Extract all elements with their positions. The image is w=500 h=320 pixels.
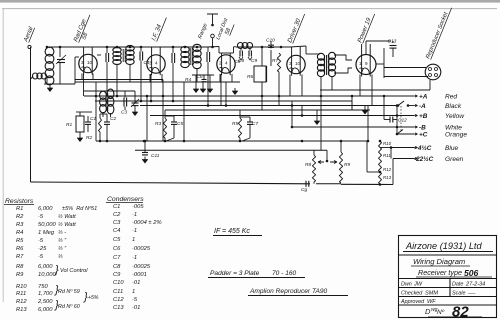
svg-text:C7: C7 [252,121,258,127]
svg-text:C3: C3 [121,110,127,116]
svg-text:·005: ·005 [132,204,144,210]
svg-text:3: 3 [289,61,292,66]
svg-text:750: 750 [38,284,48,290]
svg-text:R1: R1 [16,206,23,212]
svg-text:Approved: Approved [400,299,425,305]
svg-text:4: 4 [225,61,228,66]
svg-text:Red: Red [445,93,457,100]
svg-text:82: 82 [452,304,469,320]
svg-text:10: 10 [87,60,93,65]
svg-text:506: 506 [464,268,479,278]
svg-text:3: 3 [149,61,152,66]
svg-text:10,000: 10,000 [38,272,57,278]
svg-text:Rd Nº 59: Rd Nº 59 [58,289,80,295]
svg-text:R4: R4 [16,230,23,236]
svg-text:JW: JW [413,282,423,288]
svg-text:+A: +A [419,93,428,100]
svg-text:R3: R3 [16,222,24,228]
svg-text:⅓: ⅓ [58,254,63,260]
svg-text:C1: C1 [90,116,96,122]
svg-text:R11: R11 [383,153,391,158]
svg-text:+B: +B [419,113,428,120]
svg-text:·0001: ·0001 [132,272,147,278]
svg-text:C2: C2 [113,212,121,218]
svg-text:R6: R6 [16,246,24,252]
svg-text:Black: Black [445,103,462,110]
svg-text:R4: R4 [185,77,191,83]
svg-text:Amplion Reproducer TA90: Amplion Reproducer TA90 [249,288,328,295]
svg-text:C2: C2 [110,116,116,122]
svg-text:C8: C8 [238,58,244,64]
svg-text:·1: ·1 [132,212,137,218]
svg-text:C12: C12 [113,297,124,303]
svg-text:R7: R7 [16,254,24,260]
svg-text:Vol Control: Vol Control [60,268,88,274]
svg-text:Airzone (1931) Ltd: Airzone (1931) Ltd [405,241,482,251]
svg-text:2,500: 2,500 [37,299,53,305]
svg-text:±5% Rd Nº51: ±5% Rd Nº51 [62,205,97,212]
svg-text:R3: R3 [155,121,161,127]
svg-text:⅓ ”: ⅓ ” [58,246,67,252]
svg-text:4: 4 [155,61,158,66]
svg-text:C6: C6 [113,246,121,252]
svg-text:·1: ·1 [132,228,137,234]
svg-text:C13: C13 [113,305,124,311]
svg-text:C5: C5 [177,121,183,127]
svg-text:Rd Nº 60: Rd Nº 60 [58,304,80,310]
svg-text:R10: R10 [16,284,27,290]
svg-text:C11: C11 [113,289,123,295]
svg-text:C5: C5 [113,237,121,243]
svg-text:1 Meg: 1 Meg [38,230,55,236]
svg-text:Scale: Scale [452,291,466,297]
svg-text:C4: C4 [144,60,150,65]
svg-text:-A: -A [419,103,426,110]
svg-text:IF = 455 Kc: IF = 455 Kc [214,228,250,235]
svg-text:6,000: 6,000 [38,307,53,313]
svg-text:50,000: 50,000 [38,222,57,228]
svg-text:⅓ -: ⅓ - [58,230,66,236]
svg-text:C4: C4 [113,228,120,234]
svg-text:WF: WF [427,299,436,305]
svg-text:White: White [445,124,462,131]
svg-text:Yellow: Yellow [445,113,465,120]
svg-text:R12: R12 [16,299,27,305]
svg-text:R9: R9 [16,272,24,278]
svg-text:R2: R2 [86,135,92,141]
svg-text:½ Watt: ½ Watt [58,213,76,220]
svg-text:Checked: Checked [401,291,423,297]
svg-text:R13: R13 [16,307,27,313]
svg-text:Dwn: Dwn [401,282,412,288]
svg-text:Cg: Cg [301,187,307,193]
svg-text:3: 3 [81,60,84,65]
svg-text:R2: R2 [16,214,24,220]
svg-text:·1: ·1 [132,255,137,261]
svg-text:+C: +C [419,131,428,138]
svg-text:R5: R5 [232,121,238,127]
svg-text:70 - 160: 70 - 160 [272,270,297,277]
svg-text:1: 1 [359,61,362,66]
svg-text:2: 2 [219,61,222,66]
svg-text:C7: C7 [113,255,121,261]
svg-text:Resistors: Resistors [5,198,34,205]
svg-text:9: 9 [365,61,368,66]
svg-text:C11: C11 [151,153,160,159]
svg-text:C10: C10 [113,280,124,286]
svg-text:10: 10 [295,61,301,66]
svg-text:R8: R8 [305,162,311,168]
svg-text:+5%: +5% [88,295,99,301]
svg-text:Orange: Orange [445,131,467,138]
svg-text:·01: ·01 [132,280,140,286]
svg-text:1,700: 1,700 [38,291,53,297]
svg-text:Date: Date [452,282,463,288]
svg-text:C8: C8 [113,264,121,270]
svg-text:·00025: ·00025 [132,246,151,252]
svg-text:Receiver type: Receiver type [418,268,462,277]
svg-text:Wiring Diagram: Wiring Diagram [413,257,465,266]
svg-text:C12: C12 [398,118,407,124]
svg-text:R5: R5 [16,238,24,244]
svg-text:R10: R10 [383,141,392,146]
svg-text:1: 1 [132,237,135,243]
svg-text:·25: ·25 [38,246,47,252]
svg-text:R11: R11 [16,291,26,297]
svg-text:C3: C3 [113,220,121,226]
svg-text:·0004 ± 2%: ·0004 ± 2% [132,220,162,226]
svg-text:·01: ·01 [132,305,140,311]
svg-text:R13: R13 [383,175,392,180]
svg-text:6,000: 6,000 [38,264,53,270]
svg-text:Condensers: Condensers [107,196,144,203]
svg-text:-—: -— [468,291,476,297]
svg-text:1: 1 [132,289,135,295]
svg-text:·5: ·5 [38,238,44,244]
svg-text:·5: ·5 [38,254,44,260]
svg-text:C9: C9 [113,272,121,278]
svg-text:R12: R12 [383,167,392,172]
svg-text:27-2-34: 27-2-34 [465,282,485,288]
svg-text:C13: C13 [388,39,397,45]
svg-text:·5: ·5 [38,214,44,220]
svg-text:R6: R6 [247,74,253,80]
svg-text:½ Watt: ½ Watt [58,221,76,228]
svg-text:}: } [54,264,59,276]
svg-text:Blue: Blue [445,145,459,152]
svg-text:R1: R1 [66,122,72,128]
svg-text:-B: -B [419,124,426,131]
svg-text:Green: Green [445,156,464,163]
svg-text:Nº: Nº [437,309,445,316]
svg-text:SMM: SMM [425,291,438,297]
svg-text:·5: ·5 [132,297,138,303]
svg-text:·00025: ·00025 [132,264,151,270]
svg-text:C9: C9 [251,58,257,64]
svg-text:6,000: 6,000 [38,206,53,212]
svg-text:Padder = 3 Plate: Padder = 3 Plate [210,270,260,277]
svg-text:R7: R7 [272,58,278,64]
svg-text:C1: C1 [113,204,120,210]
svg-text:R9: R9 [344,162,350,168]
svg-text:R8: R8 [16,264,24,270]
svg-text:⅓ ”: ⅓ ” [58,238,67,244]
